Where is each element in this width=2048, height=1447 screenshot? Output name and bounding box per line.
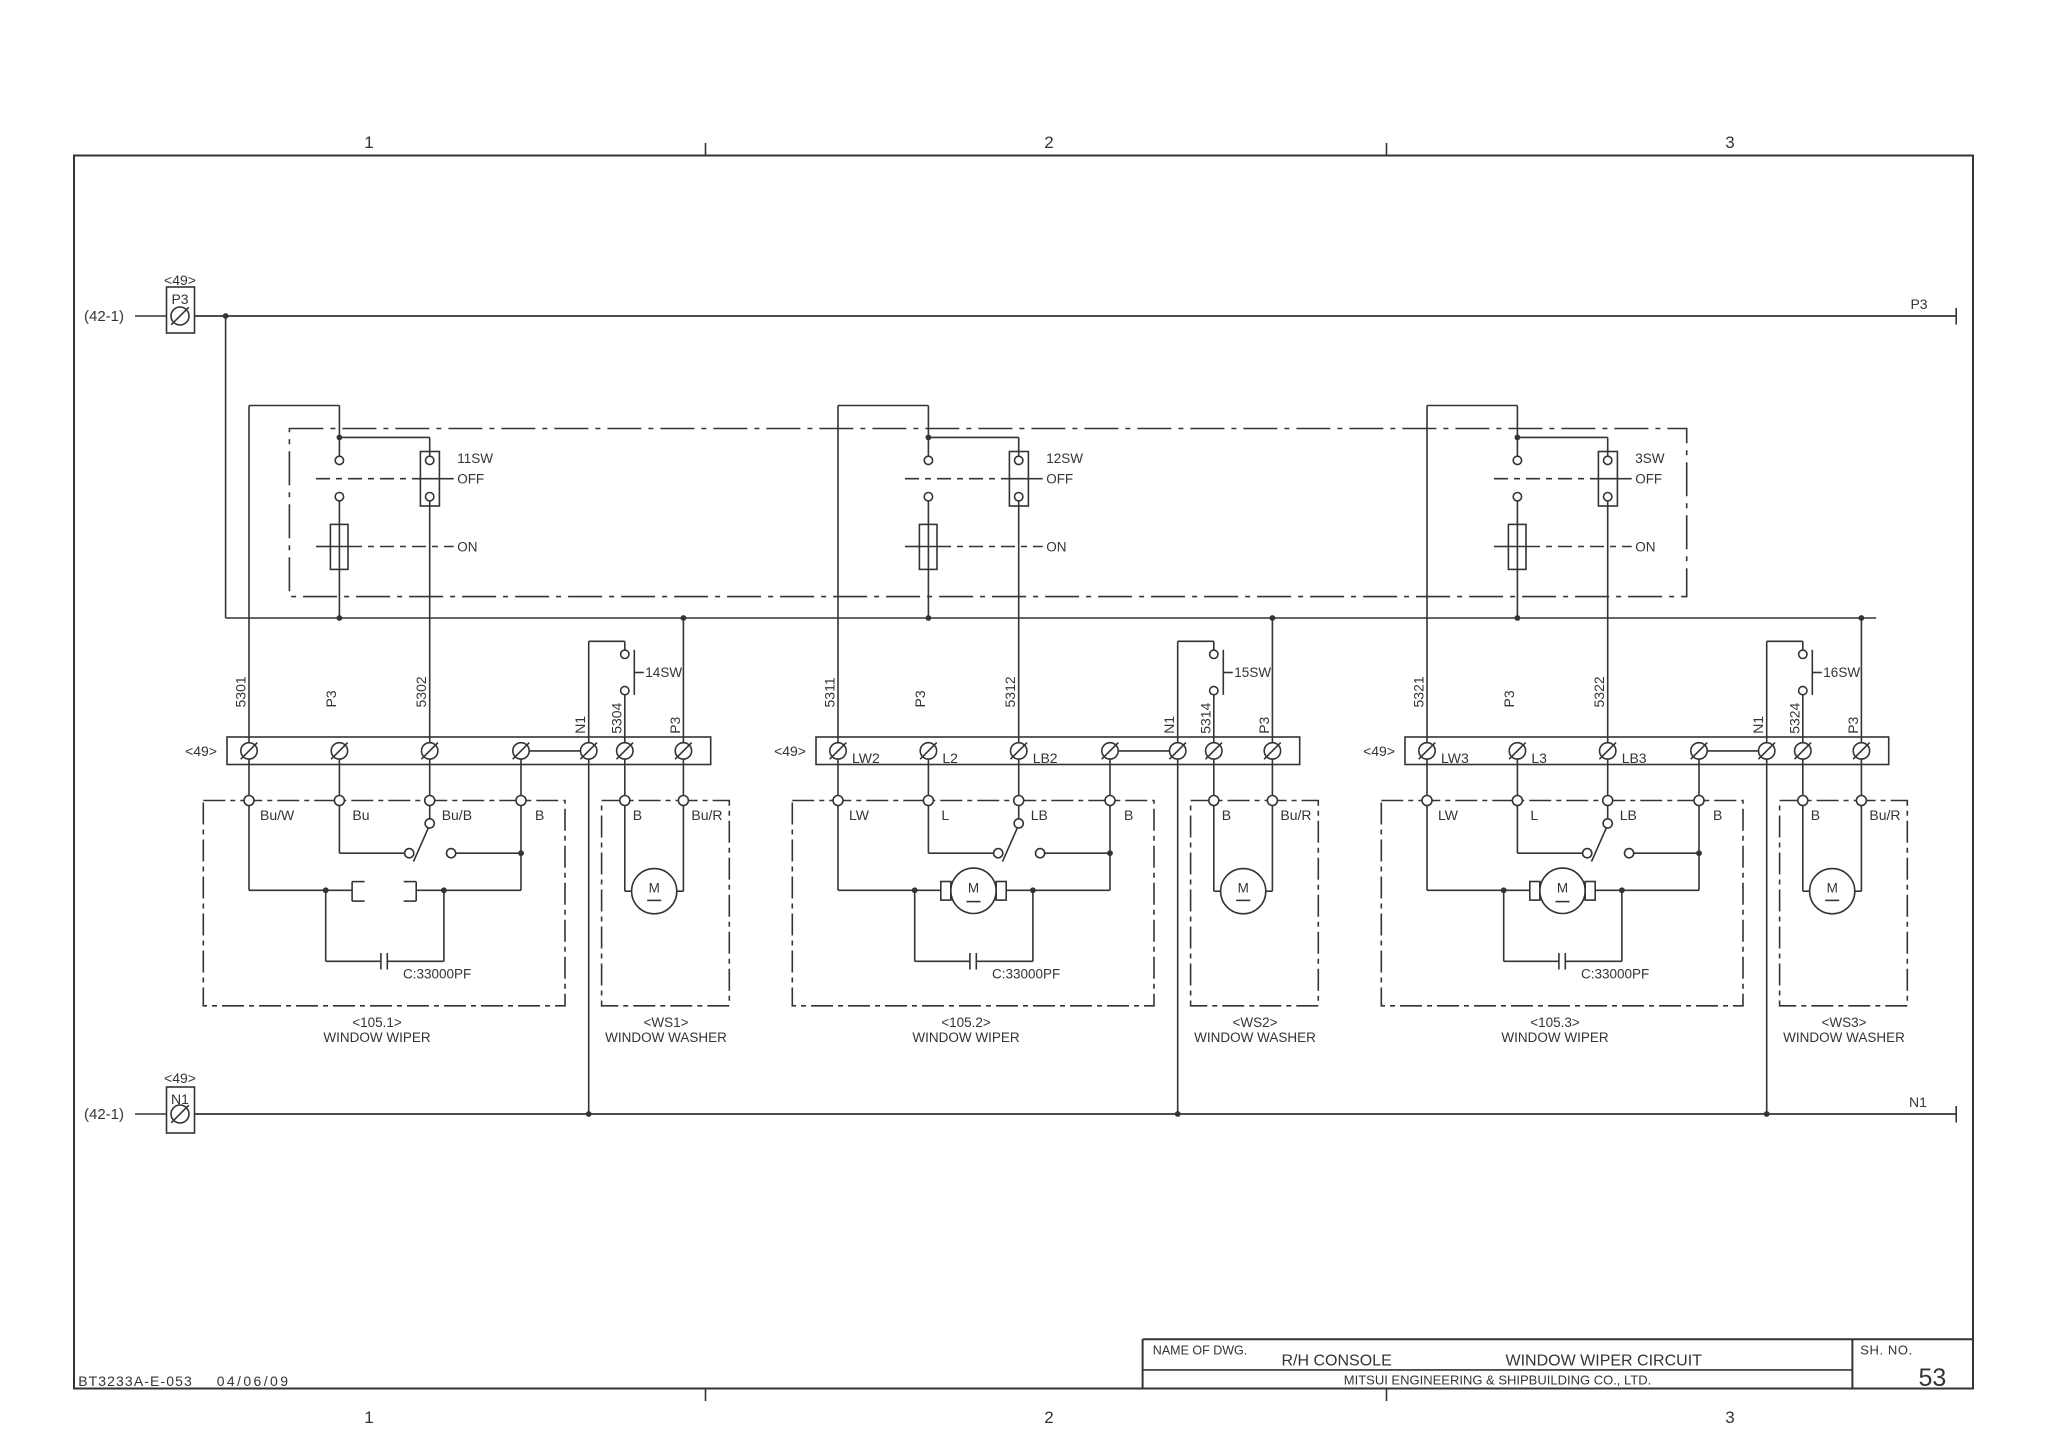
svg-text:L: L: [941, 807, 949, 823]
pushbutton 16SW contact top: [1799, 650, 1807, 658]
strip terminal 5: [1759, 743, 1775, 759]
pushbutton 15SW contact bottom: [1210, 686, 1218, 694]
svg-text:OFF: OFF: [1635, 472, 1662, 487]
wire P3 through 12SW mechanism: [927, 501, 929, 618]
terminal strip <49>: [1405, 737, 1889, 765]
svg-text:WINDOW WIPER CIRCUIT: WINDOW WIPER CIRCUIT: [1505, 1353, 1702, 1370]
wiper node LB: [1603, 796, 1613, 806]
strip terminal 1: [830, 743, 846, 759]
wire P3 drop to distribution: [225, 316, 227, 618]
wiper node Bu: [334, 795, 344, 805]
wire N1 return drop: [588, 759, 590, 1114]
strip terminal 3: [1600, 743, 1616, 759]
strip terminal 7: [675, 743, 691, 759]
junction capacitor right: [1030, 887, 1036, 893]
OFF position line 11SW: [316, 478, 420, 480]
wiper switch pole: [1018, 806, 1020, 819]
pushbutton 16SW contact bottom: [1799, 686, 1807, 694]
window wiper unit <105.1> (dash-dot box): [203, 800, 565, 1005]
wire 5321 riser: [1426, 406, 1428, 743]
svg-text:ON: ON: [1635, 539, 1655, 554]
svg-text:2: 2: [1044, 133, 1053, 152]
pushbutton 15SW actuator: [1222, 650, 1224, 695]
wire N1 to 16SW: [1766, 641, 1768, 742]
wire strip to washer unit: [682, 759, 684, 795]
svg-text:B: B: [1811, 807, 1820, 823]
svg-text:LW3: LW3: [1441, 750, 1469, 766]
washer node B: [620, 795, 630, 805]
wire B drop: [1698, 806, 1700, 891]
svg-text:M: M: [1557, 880, 1568, 895]
wiper switch right contact: [1625, 849, 1634, 858]
switch 3SW contact block: [1598, 452, 1617, 507]
OFF position line 3SW: [1494, 478, 1598, 480]
junction P3 dist / washer: [681, 615, 687, 621]
junction switch/B: [518, 850, 524, 856]
svg-text:5324: 5324: [1786, 702, 1802, 733]
strip terminal 4: [1102, 743, 1118, 759]
N1 bus end tick: [1955, 1106, 1957, 1123]
wiper motor M brush left: [1530, 882, 1540, 901]
svg-text:MITSUI ENGINEERING & SHIPBUILD: MITSUI ENGINEERING & SHIPBUILDING CO., L…: [1344, 1372, 1651, 1387]
strip link wire: [529, 750, 581, 752]
window washer unit <WS3> (dash-dot box): [1780, 801, 1908, 1006]
wire strip to wiper unit: [927, 759, 929, 795]
junction at switch 12SW feed: [926, 434, 932, 440]
svg-text:5322: 5322: [1591, 676, 1607, 707]
strip terminal 3: [1011, 743, 1027, 759]
svg-text:LW2: LW2: [852, 750, 880, 766]
svg-text:P3: P3: [1910, 296, 1927, 312]
wire L to switch: [1516, 806, 1518, 854]
wire N1 return drop: [1177, 759, 1179, 1114]
window washer unit <WS2> (dash-dot box): [1191, 801, 1319, 1006]
svg-text:Bu/B: Bu/B: [442, 807, 472, 823]
wire strip to washer unit: [1802, 759, 1804, 795]
wire strip to wiper unit: [338, 759, 340, 795]
wiper switch left contact: [405, 849, 414, 858]
P3 bus end tick: [1955, 308, 1957, 325]
svg-text:<49>: <49>: [774, 743, 806, 759]
wire strip to washer unit: [1860, 759, 1862, 795]
wire 5312 from 12SW: [1018, 501, 1020, 743]
wire strip to wiper unit: [429, 759, 431, 795]
strip link wire: [1707, 750, 1759, 752]
ON position line 11SW: [316, 545, 330, 547]
window washer unit <WS1> (dash-dot box): [602, 800, 730, 1005]
svg-text:WINDOW WIPER: WINDOW WIPER: [1501, 1030, 1608, 1045]
wire strip to wiper unit: [1426, 759, 1428, 795]
switch 11SW mechanism body: [330, 524, 348, 569]
wire feed to 3SW contact block: [1517, 436, 1607, 438]
svg-text:Bu/W: Bu/W: [260, 807, 295, 823]
wire L to switch: [927, 806, 929, 854]
wiper motor M: [1540, 868, 1585, 913]
junction capacitor right: [1619, 887, 1625, 893]
wire 5322 from 3SW: [1607, 501, 1609, 743]
terminal <49> N1 box: [166, 1087, 194, 1133]
junction switch/B: [1696, 850, 1702, 856]
svg-text:5302: 5302: [413, 676, 429, 707]
switch 12SW pole stub: [927, 437, 929, 456]
junction N1 bus: [1175, 1111, 1181, 1117]
wiper node LW: [833, 795, 843, 805]
svg-text:5314: 5314: [1197, 702, 1213, 733]
wire to wiper motor: [1427, 889, 1530, 891]
switch 3SW pole contact top: [1513, 456, 1521, 464]
capacitor C 33000PF: [914, 890, 916, 961]
wiper node Bu/B: [425, 795, 435, 805]
wire P3 to washer: [1271, 618, 1273, 743]
terminal <49> N1 screw: [171, 1105, 189, 1123]
svg-text:Bu/R: Bu/R: [1280, 807, 1311, 823]
window wiper unit <105.2> (dash-dot box): [792, 800, 1154, 1005]
svg-text:3: 3: [1725, 1408, 1734, 1427]
wire to wiper motor: [838, 889, 941, 891]
svg-text:P3: P3: [1845, 716, 1861, 733]
svg-text:1: 1: [364, 133, 373, 152]
wire to connector left half: [249, 889, 352, 891]
svg-text:5321: 5321: [1411, 676, 1427, 707]
junction at switch 3SW feed: [1515, 435, 1521, 441]
svg-text:ON: ON: [1046, 539, 1066, 554]
svg-text:LB3: LB3: [1622, 750, 1647, 766]
wire 5301 riser: [248, 405, 250, 742]
svg-text:5301: 5301: [233, 676, 249, 707]
pushbutton 15SW contact top: [1210, 650, 1218, 658]
svg-text:16SW: 16SW: [1823, 665, 1860, 680]
wiper switch right contact: [446, 849, 455, 858]
washer node Bu/R: [678, 795, 688, 805]
ON position line 3SW: [1494, 546, 1508, 548]
svg-text:N1: N1: [1161, 716, 1177, 734]
column tick top 1|2: [705, 143, 707, 156]
svg-text:WINDOW WASHER: WINDOW WASHER: [1194, 1030, 1316, 1045]
washer node Bu/R: [1856, 796, 1866, 806]
svg-text:<WS1>: <WS1>: [643, 1015, 688, 1030]
svg-text:Bu/R: Bu/R: [691, 807, 722, 823]
strip terminal 1: [241, 743, 257, 759]
svg-text:<49>: <49>: [164, 272, 196, 288]
switch 11SW contact block: [420, 451, 439, 506]
wire N1 return drop: [1766, 759, 1768, 1114]
wire feed to 11SW contact block: [339, 436, 429, 438]
svg-text:B: B: [1713, 807, 1722, 823]
capacitor C 33000PF: [325, 890, 327, 961]
capacitor C 33000PF: [1503, 890, 1505, 961]
strip terminal 6: [1795, 743, 1811, 759]
strip terminal 1: [1419, 743, 1435, 759]
wiper node Bu/W: [244, 795, 254, 805]
svg-text:BT3233A-E-053: BT3233A-E-053: [78, 1373, 193, 1389]
svg-text:5304: 5304: [608, 702, 624, 733]
strip link wire: [1118, 750, 1170, 752]
svg-text:L: L: [1530, 807, 1538, 823]
wiper switch left contact: [994, 849, 1003, 858]
washer motor M: [624, 805, 626, 891]
switch 12SW mechanism body: [919, 524, 937, 569]
wire P3 through 3SW mechanism: [1516, 501, 1518, 618]
svg-text:LW: LW: [1438, 807, 1459, 823]
wire strip to wiper unit: [1516, 759, 1518, 795]
svg-text:3: 3: [1725, 133, 1734, 152]
terminal strip <49>: [227, 737, 711, 765]
svg-text:P3: P3: [1256, 716, 1272, 733]
washer motor M: [1213, 806, 1215, 892]
svg-text:P3: P3: [1501, 690, 1517, 707]
junction P3 dist / washer 3: [1859, 615, 1865, 621]
wiper switch arm: [1592, 828, 1607, 861]
svg-text:LW: LW: [849, 807, 870, 823]
connector left half: [351, 882, 353, 902]
svg-text:WINDOW WASHER: WINDOW WASHER: [1783, 1030, 1905, 1045]
svg-text:P3: P3: [171, 291, 188, 307]
wire LW drop: [837, 805, 839, 890]
svg-text:N1: N1: [1909, 1094, 1927, 1110]
wiper motor M brush right: [1585, 882, 1595, 901]
column tick bottom 2|3: [1385, 1389, 1387, 1402]
wire LW drop: [1426, 806, 1428, 891]
wiper node B: [1105, 796, 1115, 806]
pushbutton 14SW contact top: [621, 650, 629, 658]
P3 bus: [195, 315, 1957, 317]
switch 3SW pole stub: [1516, 437, 1518, 456]
wire bend over switch 12SW: [838, 404, 928, 406]
svg-text:NAME OF DWG.: NAME OF DWG.: [1153, 1344, 1247, 1358]
strip terminal 6: [617, 743, 633, 759]
switch 11SW pole stub: [338, 437, 340, 456]
junction at switch 11SW feed: [337, 434, 343, 440]
wiper node LB: [1014, 796, 1024, 806]
svg-text:M: M: [1827, 881, 1838, 896]
pushbutton 14SW actuator: [633, 650, 635, 695]
OFF position line 12SW: [905, 478, 1009, 480]
wire P3 to washer: [682, 618, 684, 743]
svg-text:P3: P3: [912, 690, 928, 707]
svg-text:5312: 5312: [1002, 676, 1018, 707]
svg-text:2: 2: [1044, 1408, 1053, 1427]
wiper switch arm: [1003, 828, 1018, 861]
wiper switch right contact: [1036, 849, 1045, 858]
wiper switch pole: [429, 805, 431, 818]
wire strip to wiper unit: [248, 759, 250, 795]
svg-text:<WS2>: <WS2>: [1232, 1015, 1277, 1030]
svg-text:12SW: 12SW: [1046, 451, 1083, 466]
svg-text:5311: 5311: [822, 677, 838, 707]
svg-text:(42-1): (42-1): [84, 1106, 124, 1123]
svg-text:(42-1): (42-1): [84, 308, 124, 325]
svg-text:C:33000PF: C:33000PF: [992, 967, 1060, 982]
svg-text:B: B: [633, 807, 642, 823]
wire strip to wiper unit: [1607, 759, 1609, 795]
strip terminal 2: [331, 743, 347, 759]
strip terminal 7: [1264, 743, 1280, 759]
wire bend over switch 3SW: [1427, 405, 1517, 407]
wiper motor M brush left: [941, 882, 951, 901]
svg-text:14SW: 14SW: [645, 665, 682, 680]
svg-text:3SW: 3SW: [1635, 451, 1665, 466]
wire N1 to 15SW: [1177, 641, 1179, 742]
svg-text:OFF: OFF: [1046, 472, 1073, 487]
N1 bus: [194, 1113, 1956, 1115]
switch 3SW mechanism body: [1508, 524, 1526, 569]
wire Bu/W drop: [248, 805, 250, 890]
strip terminal 3: [422, 743, 438, 759]
junction capacitor left: [912, 887, 918, 893]
wiper node L: [923, 796, 933, 806]
svg-text:<49>: <49>: [185, 743, 217, 759]
svg-text:L3: L3: [1531, 750, 1547, 766]
wire strip to wiper unit: [1698, 759, 1700, 795]
svg-text:N1: N1: [1750, 716, 1766, 734]
wire strip to wiper unit: [1018, 759, 1020, 795]
wire strip to wiper unit: [837, 759, 839, 795]
connector right half: [415, 882, 417, 902]
svg-text:<105.3>: <105.3>: [1530, 1015, 1580, 1030]
strip terminal 5: [581, 743, 597, 759]
wire strip to washer unit: [1213, 759, 1215, 795]
svg-text:M: M: [1238, 881, 1249, 896]
wire switch to B: [456, 852, 521, 854]
svg-text:1: 1: [364, 1408, 373, 1427]
svg-text:LB: LB: [1620, 807, 1637, 823]
svg-text:M: M: [649, 880, 660, 895]
svg-text:15SW: 15SW: [1234, 665, 1271, 680]
svg-text:B: B: [1222, 807, 1231, 823]
strip terminal 7: [1853, 743, 1869, 759]
svg-text:L2: L2: [942, 750, 958, 766]
wiper switch left contact: [1583, 849, 1592, 858]
wire from wiper motor: [1006, 889, 1110, 891]
junction capacitor left: [1501, 887, 1507, 893]
svg-text:P3: P3: [323, 690, 339, 707]
border frame: [74, 155, 1973, 1388]
pushbutton 14SW contact bottom: [621, 686, 629, 694]
svg-text:N1: N1: [572, 716, 588, 734]
svg-text:OFF: OFF: [457, 471, 484, 486]
wiper node LW: [1422, 796, 1432, 806]
svg-text:<49>: <49>: [164, 1070, 196, 1086]
wiper motor M: [951, 868, 996, 913]
wiper node B: [1694, 796, 1704, 806]
svg-text:WINDOW WIPER: WINDOW WIPER: [323, 1030, 430, 1045]
washer motor M: [1802, 806, 1804, 892]
junction N1 bus: [1764, 1111, 1770, 1117]
junction N1 bus: [586, 1111, 592, 1117]
junction capacitor right: [441, 887, 447, 893]
terminal strip <49>: [816, 737, 1300, 765]
terminal <49> P3 box: [167, 287, 195, 333]
svg-text:11SW: 11SW: [457, 451, 493, 466]
wiper switch arm: [413, 828, 428, 861]
svg-text:Bu/R: Bu/R: [1869, 807, 1900, 823]
wiper motor M brush right: [996, 882, 1006, 901]
svg-text:R/H CONSOLE: R/H CONSOLE: [1281, 1353, 1391, 1370]
svg-text:53: 53: [1918, 1364, 1946, 1392]
wire 5314: [1213, 695, 1215, 743]
column tick bottom 1|2: [704, 1389, 706, 1402]
svg-text:Bu: Bu: [352, 807, 369, 823]
washer node B: [1798, 796, 1808, 806]
junction capacitor left: [323, 887, 329, 893]
strip terminal 6: [1206, 743, 1222, 759]
wire strip to wiper unit: [1109, 759, 1111, 795]
svg-text:04/06/09: 04/06/09: [217, 1373, 291, 1389]
strip terminal 4: [1691, 743, 1707, 759]
wire from (42-1) to N1 terminal: [135, 1113, 167, 1115]
svg-text:LB2: LB2: [1033, 750, 1058, 766]
switch 12SW pole contact bottom: [924, 492, 932, 500]
svg-text:M: M: [968, 880, 979, 895]
wiper node B: [516, 795, 526, 805]
window wiper unit <105.3> (dash-dot box): [1381, 801, 1743, 1006]
strip terminal 2: [920, 743, 936, 759]
wire from (42-1) to P3 terminal: [135, 315, 167, 317]
wire 5304: [624, 695, 626, 743]
wire from wiper motor: [1595, 889, 1699, 891]
junction P3 dist / wiper 3SW: [1515, 615, 1521, 621]
wire strip to washer unit: [1271, 759, 1273, 795]
wire 5302 from 11SW: [429, 501, 431, 742]
title block frame: [1143, 1338, 1973, 1340]
wire strip to wiper unit: [520, 759, 522, 795]
P3 distribution wire: [226, 617, 1877, 619]
wire bend over switch 11SW: [249, 404, 339, 406]
strip terminal 5: [1170, 743, 1186, 759]
wiper switch pole: [1607, 806, 1609, 819]
wire feed to 12SW contact block: [928, 436, 1018, 438]
wire 5311 riser: [837, 405, 839, 742]
wire B drop: [520, 805, 522, 890]
wire P3 to washer 3: [1860, 618, 1862, 743]
svg-text:WINDOW WIPER: WINDOW WIPER: [912, 1030, 1019, 1045]
strip terminal 2: [1509, 743, 1525, 759]
switch 12SW pole contact top: [924, 456, 932, 464]
junction P3 dist / washer: [1270, 615, 1276, 621]
svg-text:B: B: [1124, 807, 1133, 823]
junction switch/B: [1107, 850, 1113, 856]
svg-text:P3: P3: [667, 716, 683, 733]
washer node Bu/R: [1267, 796, 1277, 806]
svg-text:C:33000PF: C:33000PF: [1581, 967, 1649, 982]
washer node B: [1209, 796, 1219, 806]
wire Bu to switch: [338, 805, 340, 853]
svg-text:ON: ON: [457, 539, 477, 554]
terminal <49> P3 screw: [171, 307, 189, 325]
wire from connector right half: [416, 889, 521, 891]
switch 11SW pole contact top: [335, 456, 343, 464]
svg-text:C:33000PF: C:33000PF: [403, 966, 471, 981]
wire switch to B: [1045, 852, 1110, 854]
wire B drop: [1109, 806, 1111, 891]
svg-text:<105.2>: <105.2>: [941, 1015, 991, 1030]
wire switch to B: [1634, 852, 1699, 854]
wire 5324: [1802, 695, 1804, 743]
svg-text:SH. NO.: SH. NO.: [1860, 1343, 1913, 1358]
junction on P3 bus: [223, 313, 229, 319]
wiper node L: [1512, 796, 1522, 806]
svg-text:LB: LB: [1031, 807, 1048, 823]
console boundary (dash-dot box): [289, 428, 1686, 596]
ON position line 12SW: [905, 546, 919, 548]
svg-text:<WS3>: <WS3>: [1821, 1015, 1866, 1030]
wire N1 to 14SW: [588, 641, 590, 742]
switch 11SW pole contact bottom: [335, 492, 343, 500]
switch 3SW pole contact bottom: [1513, 493, 1521, 501]
wire strip to washer unit: [624, 759, 626, 795]
svg-text:<105.1>: <105.1>: [352, 1015, 402, 1030]
strip terminal 4: [513, 743, 529, 759]
